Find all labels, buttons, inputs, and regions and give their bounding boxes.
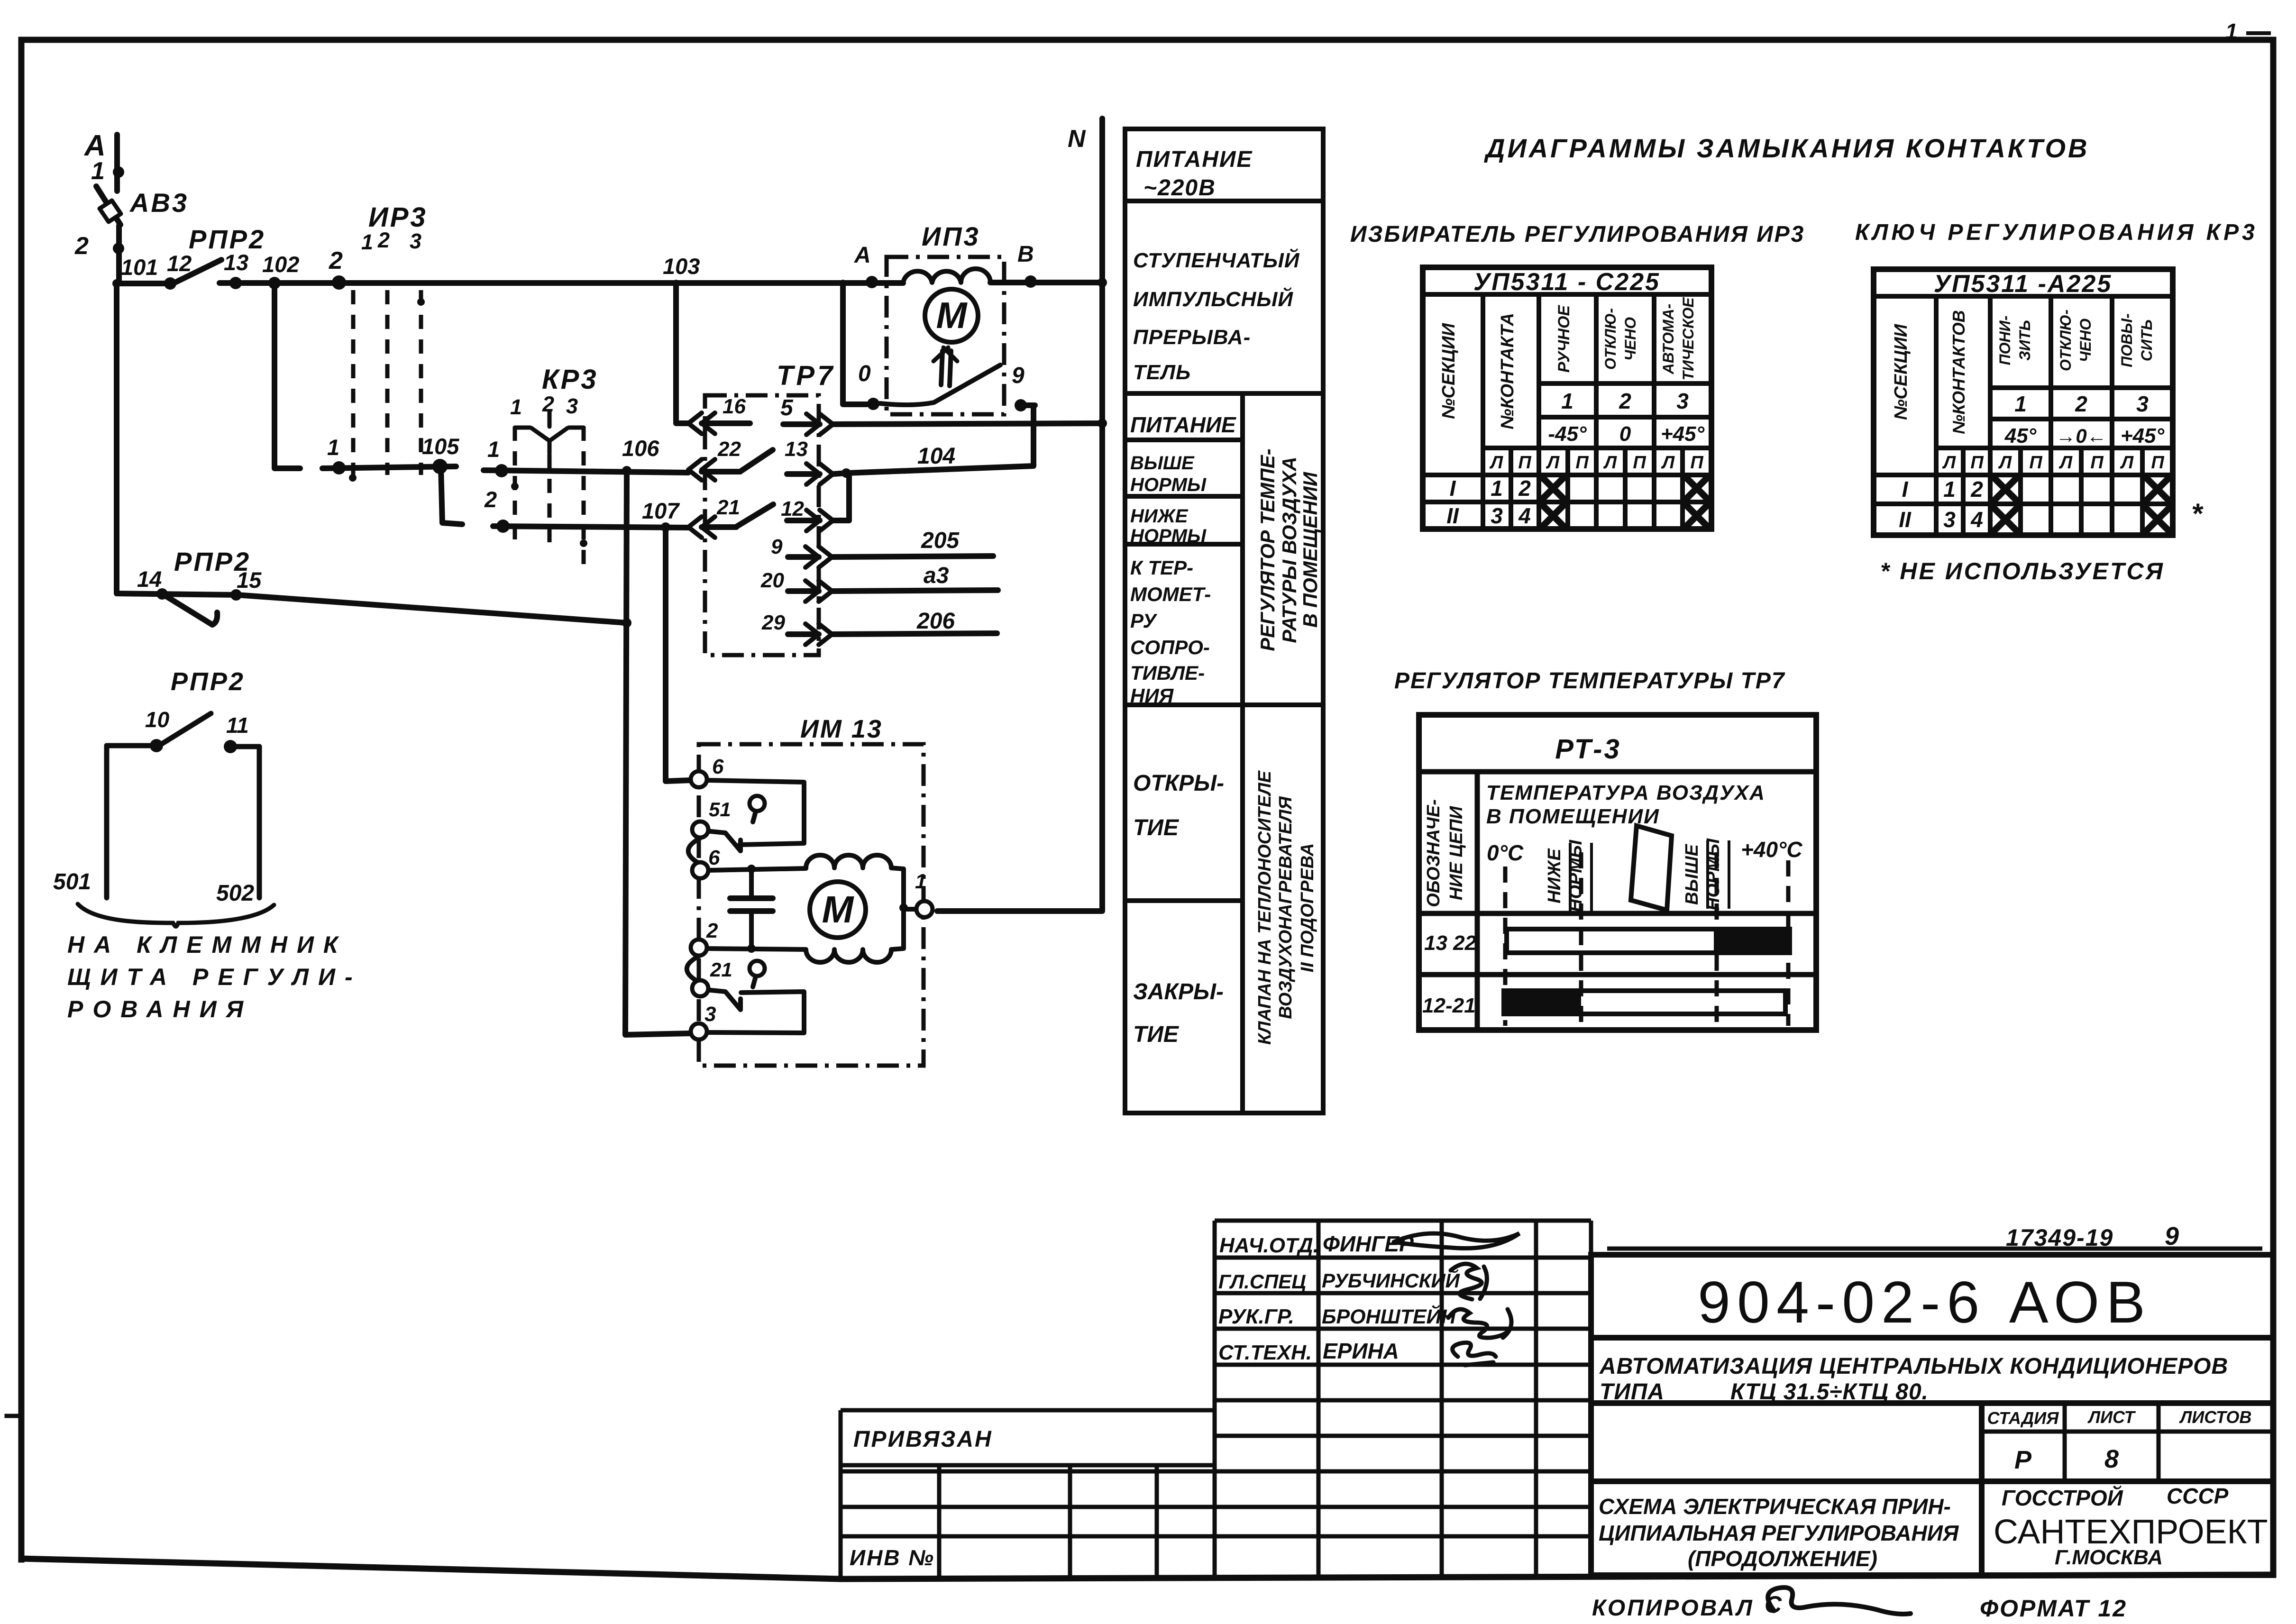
svg-text:1: 1 (1491, 476, 1503, 501)
svg-text:+45°: +45° (1661, 422, 1705, 446)
svg-text:СТУПЕНЧАТЫЙ: СТУПЕНЧАТЫЙ (1133, 248, 1300, 272)
svg-text:1: 1 (915, 870, 926, 893)
svg-text:1: 1 (510, 395, 522, 419)
svg-text:СХЕМА ЭЛЕКТРИЧЕСКАЯ ПРИН-: СХЕМА ЭЛЕКТРИЧЕСКАЯ ПРИН- (1599, 1494, 1951, 1519)
svg-text:НИЕ ЦЕПИ: НИЕ ЦЕПИ (1446, 806, 1466, 900)
svg-text:ОТКЛЮ-: ОТКЛЮ- (2057, 310, 2074, 371)
svg-text:3: 3 (566, 394, 578, 418)
svg-text:51: 51 (709, 798, 731, 821)
svg-text:СССР: СССР (2167, 1484, 2229, 1508)
svg-text:№СЕКЦИИ: №СЕКЦИИ (1891, 324, 1911, 420)
svg-text:ПРЕРЫВА-: ПРЕРЫВА- (1133, 326, 1251, 349)
svg-text:13: 13 (224, 250, 248, 275)
svg-text:Л: Л (1546, 453, 1560, 473)
svg-text:ЧЕНО: ЧЕНО (1622, 317, 1639, 361)
svg-text:2: 2 (74, 232, 89, 260)
svg-text:П: П (1970, 453, 1984, 473)
svg-text:106: 106 (622, 436, 659, 461)
svg-text:Л: Л (2120, 453, 2134, 473)
svg-text:2: 2 (1619, 389, 1631, 413)
svg-text:13 22: 13 22 (1424, 931, 1477, 955)
svg-text:ОТКРЫ-: ОТКРЫ- (1133, 771, 1224, 796)
svg-text:(ПРОДОЛЖЕНИЕ): (ПРОДОЛЖЕНИЕ) (1688, 1546, 1877, 1571)
svg-text:ИП3: ИП3 (922, 221, 980, 251)
svg-text:ТИЧЕСКОЕ: ТИЧЕСКОЕ (1680, 297, 1697, 381)
svg-text:КОПИРОВАЛ: КОПИРОВАЛ (1592, 1596, 1754, 1621)
svg-text:ИНВ №: ИНВ № (850, 1545, 935, 1570)
svg-text:I: I (1902, 477, 1909, 502)
svg-text:ГОССТРОЙ: ГОССТРОЙ (2002, 1486, 2123, 1510)
svg-text:СОПРО-: СОПРО- (1130, 636, 1210, 658)
svg-text:М: М (936, 294, 968, 336)
svg-text:ЦИПИАЛЬНАЯ РЕГУЛИРОВАНИЯ: ЦИПИАЛЬНАЯ РЕГУЛИРОВАНИЯ (1599, 1521, 1959, 1545)
svg-text:ВЫШЕ: ВЫШЕ (1130, 453, 1195, 474)
svg-text:15: 15 (237, 567, 262, 593)
svg-text:3: 3 (704, 1003, 716, 1026)
svg-text:Г.МОСКВА: Г.МОСКВА (2055, 1546, 2163, 1569)
svg-text:П: П (2029, 453, 2042, 473)
svg-text:2: 2 (706, 919, 718, 942)
svg-text:2: 2 (1970, 477, 1983, 502)
svg-text:1: 1 (1561, 389, 1573, 413)
svg-text:СИТЬ: СИТЬ (2138, 319, 2155, 361)
svg-text:6: 6 (708, 846, 720, 869)
svg-text:205: 205 (921, 528, 960, 553)
svg-text:СТАДИЯ: СТАДИЯ (1987, 1408, 2059, 1428)
svg-text:I: I (1450, 476, 1456, 501)
svg-text:ТИПА: ТИПА (1600, 1379, 1665, 1405)
svg-text:П: П (1633, 453, 1646, 473)
svg-text:105: 105 (422, 434, 459, 459)
svg-text:ТИВЛЕ-: ТИВЛЕ- (1130, 662, 1205, 684)
svg-text:16: 16 (723, 395, 746, 418)
svg-text:ПОНИ-: ПОНИ- (1996, 316, 2013, 365)
svg-text:ПРИВЯЗАН: ПРИВЯЗАН (853, 1427, 993, 1452)
svg-text:1: 1 (1943, 477, 1956, 502)
svg-text:П: П (2151, 453, 2164, 473)
svg-text:РТ-3: РТ-3 (1555, 734, 1621, 765)
svg-text:ПИТАНИЕ: ПИТАНИЕ (1136, 147, 1253, 172)
svg-text:РУ: РУ (1130, 610, 1158, 632)
svg-text:ЗИТЬ: ЗИТЬ (2016, 320, 2033, 361)
svg-text:ЩИТА РЕГУЛИ-: ЩИТА РЕГУЛИ- (67, 964, 362, 990)
svg-text:В: В (1017, 242, 1034, 267)
svg-text:В ПОМЕЩЕНИИ: В ПОМЕЩЕНИИ (1486, 805, 1660, 828)
svg-text:НИЖЕ: НИЖЕ (1545, 848, 1564, 903)
svg-text:0: 0 (1619, 422, 1631, 446)
svg-text:2: 2 (484, 487, 497, 512)
svg-text:501: 501 (53, 869, 91, 894)
svg-text:НИЯ: НИЯ (1130, 684, 1174, 707)
svg-text:22: 22 (717, 438, 741, 461)
svg-text:12: 12 (781, 497, 804, 520)
svg-text:9: 9 (771, 535, 783, 558)
svg-text:УП5311 -А225: УП5311 -А225 (1934, 270, 2113, 298)
svg-text:ПИТАНИЕ: ПИТАНИЕ (1130, 412, 1236, 437)
svg-text:ИР3: ИР3 (368, 202, 428, 233)
svg-text:КЛАПАН НА ТЕПЛОНОСИТЕЛЕ: КЛАПАН НА ТЕПЛОНОСИТЕЛЕ (1255, 770, 1275, 1045)
svg-text:904-02-6 АОВ: 904-02-6 АОВ (1698, 1270, 2152, 1335)
svg-text:-45°: -45° (1548, 422, 1587, 446)
svg-text:0°С: 0°С (1487, 840, 1524, 865)
svg-text:21: 21 (716, 496, 740, 519)
svg-text:8: 8 (2104, 1445, 2119, 1473)
svg-text:РУК.ГР.: РУК.ГР. (1218, 1305, 1294, 1328)
svg-text:2: 2 (329, 247, 343, 274)
svg-text:ДИАГРАММЫ ЗАМЫКАНИЯ КОНТАКТОВ: ДИАГРАММЫ ЗАМЫКАНИЯ КОНТАКТОВ (1484, 133, 2089, 163)
svg-text:ЗАКРЫ-: ЗАКРЫ- (1133, 979, 1224, 1004)
svg-text:ЧЕНО: ЧЕНО (2077, 319, 2094, 362)
svg-text:12: 12 (167, 251, 192, 276)
svg-text:БРОНШТЕЙН: БРОНШТЕЙН (1322, 1305, 1456, 1328)
svg-text:107: 107 (642, 498, 680, 523)
svg-text:САНТЕХПРОЕКТ: САНТЕХПРОЕКТ (1994, 1513, 2268, 1551)
svg-text:1: 1 (361, 230, 373, 254)
svg-text:11: 11 (226, 713, 249, 738)
svg-text:Л: Л (1942, 453, 1956, 473)
svg-text:В ПОМЕЩЕНИИ: В ПОМЕЩЕНИИ (1299, 472, 1321, 628)
svg-text:+45°: +45° (2121, 424, 2165, 447)
svg-text:РАТУРЫ ВОЗДУХА: РАТУРЫ ВОЗДУХА (1278, 456, 1300, 643)
svg-text:13: 13 (785, 438, 808, 461)
svg-text:10: 10 (145, 707, 170, 732)
svg-text:П: П (1690, 453, 1703, 473)
svg-text:206: 206 (916, 609, 955, 634)
svg-text:~220В: ~220В (1143, 175, 1216, 201)
svg-text:КЛЮЧ РЕГУЛИРОВАНИЯ КР3: КЛЮЧ РЕГУЛИРОВАНИЯ КР3 (1855, 220, 2258, 245)
svg-text:2: 2 (1518, 476, 1531, 501)
svg-text:НАЧ.ОТД.: НАЧ.ОТД. (1219, 1234, 1319, 1257)
svg-text:ЛИСТ: ЛИСТ (2087, 1407, 2136, 1427)
svg-text:29: 29 (761, 611, 785, 634)
svg-text:К ТЕР-: К ТЕР- (1130, 557, 1193, 579)
svg-text:НОРМЫ: НОРМЫ (1130, 474, 1207, 495)
svg-text:СТ.ТЕХН.: СТ.ТЕХН. (1218, 1341, 1312, 1364)
svg-text:ВЫШЕ: ВЫШЕ (1682, 843, 1702, 905)
svg-text:Л: Л (1661, 453, 1675, 473)
svg-text:ЕРИНА: ЕРИНА (1323, 1339, 1399, 1363)
svg-text:С: С (1765, 1591, 1782, 1618)
svg-text:1: 1 (91, 157, 105, 185)
svg-text:РЕГУЛЯТОР ТЕМПЕРАТУРЫ ТР7: РЕГУЛЯТОР ТЕМПЕРАТУРЫ ТР7 (1394, 668, 1785, 693)
svg-text:ФОРМАТ 12: ФОРМАТ 12 (1980, 1595, 2127, 1622)
svg-text:ТИЕ: ТИЕ (1133, 1022, 1180, 1047)
svg-text:ОБОЗНАЧЕ-: ОБОЗНАЧЕ- (1424, 799, 1444, 907)
svg-text:1: 1 (2225, 19, 2238, 44)
svg-text:ГЛ.СПЕЦ: ГЛ.СПЕЦ (1218, 1270, 1306, 1293)
svg-text:3: 3 (1491, 503, 1503, 528)
svg-text:17349-19: 17349-19 (2006, 1224, 2113, 1251)
svg-text:РУБЧИНСКИЙ: РУБЧИНСКИЙ (1322, 1268, 1460, 1292)
svg-text:II: II (1446, 503, 1459, 528)
svg-text:9: 9 (1012, 363, 1025, 388)
svg-text:0: 0 (858, 361, 871, 386)
svg-text:3: 3 (2136, 392, 2149, 416)
svg-text:НИЖЕ: НИЖЕ (1130, 506, 1189, 527)
svg-text:АВТОМА-: АВТОМА- (1660, 304, 1677, 375)
svg-text:2: 2 (377, 228, 390, 252)
svg-text:№СЕКЦИИ: №СЕКЦИИ (1439, 323, 1459, 419)
svg-text:20: 20 (760, 569, 784, 592)
svg-text:ИМПУЛЬСНЫЙ: ИМПУЛЬСНЫЙ (1133, 287, 1293, 311)
svg-text:ИМ 13: ИМ 13 (800, 715, 883, 743)
svg-text:6: 6 (712, 755, 724, 778)
svg-text:П: П (1575, 453, 1589, 473)
svg-text:ОТКЛЮ-: ОТКЛЮ- (1602, 308, 1619, 370)
svg-text:ВОЗДУХОНАГРЕВАТЕЛЯ: ВОЗДУХОНАГРЕВАТЕЛЯ (1276, 796, 1296, 1019)
svg-text:*: * (2191, 498, 2204, 529)
svg-text:П: П (2090, 453, 2104, 473)
svg-text:РУЧНОЕ: РУЧНОЕ (1555, 305, 1573, 373)
svg-text:а3: а3 (924, 563, 949, 588)
svg-text:ПОВЫ-: ПОВЫ- (2118, 313, 2135, 367)
svg-text:№КОНТАКТА: №КОНТАКТА (1498, 313, 1518, 429)
svg-text:ЛИСТОВ: ЛИСТОВ (2179, 1407, 2252, 1427)
svg-text:Л: Л (1998, 453, 2012, 473)
svg-text:1: 1 (327, 435, 339, 460)
svg-text:* НЕ ИСПОЛЬЗУЕТСЯ: * НЕ ИСПОЛЬЗУЕТСЯ (1880, 558, 2165, 584)
svg-text:+40°С: +40°С (1741, 837, 1802, 862)
svg-text:3: 3 (1676, 389, 1689, 413)
svg-text:А: А (854, 243, 871, 268)
svg-text:45°: 45° (2004, 424, 2037, 447)
svg-text:Л: Л (1489, 453, 1503, 473)
svg-text:РОВАНИЯ: РОВАНИЯ (67, 996, 253, 1022)
svg-text:N: N (1068, 125, 1086, 153)
svg-text:РПР2: РПР2 (171, 667, 245, 696)
svg-text:УП5311 - С225: УП5311 - С225 (1473, 268, 1660, 296)
svg-text:МОМЕТ-: МОМЕТ- (1130, 583, 1211, 605)
svg-text:II: II (1899, 507, 1912, 532)
svg-text:ИЗБИРАТЕЛЬ РЕГУЛИРОВАНИЯ ИР3: ИЗБИРАТЕЛЬ РЕГУЛИРОВАНИЯ ИР3 (1350, 222, 1805, 247)
svg-text:РЕГУЛЯТОР ТЕМПЕ-: РЕГУЛЯТОР ТЕМПЕ- (1256, 448, 1279, 651)
svg-text:П: П (1518, 453, 1531, 473)
svg-text:3: 3 (410, 229, 421, 253)
svg-text:3: 3 (1943, 507, 1956, 532)
svg-text:2: 2 (542, 392, 554, 416)
svg-text:21: 21 (710, 958, 732, 981)
svg-text:ТИЕ: ТИЕ (1133, 815, 1180, 840)
svg-text:104: 104 (917, 444, 955, 469)
svg-text:1: 1 (2014, 392, 2027, 416)
svg-text:103: 103 (663, 254, 700, 279)
svg-text:→0←: →0← (2056, 425, 2106, 447)
svg-text:4: 4 (1518, 503, 1531, 528)
svg-text:М: М (822, 888, 855, 931)
svg-text:12-21: 12-21 (1422, 994, 1476, 1017)
svg-text:II ПОДОГРЕВА: II ПОДОГРЕВА (1298, 843, 1317, 973)
svg-text:АВ3: АВ3 (129, 188, 189, 218)
svg-text:2: 2 (2075, 392, 2087, 416)
svg-text:ТЕЛЬ: ТЕЛЬ (1133, 361, 1191, 384)
svg-text:АВТОМАТИЗАЦИЯ ЦЕНТРАЛЬНЫХ КОНД: АВТОМАТИЗАЦИЯ ЦЕНТРАЛЬНЫХ КОНДИЦИОНЕРОВ (1599, 1354, 2228, 1379)
svg-text:4: 4 (1970, 507, 1983, 532)
svg-text:502: 502 (216, 881, 254, 906)
svg-text:НОРМЫ: НОРМЫ (1130, 526, 1207, 547)
svg-text:Р: Р (2014, 1446, 2032, 1474)
svg-text:9: 9 (2165, 1222, 2179, 1250)
svg-text:1: 1 (487, 437, 500, 462)
svg-text:КР3: КР3 (542, 364, 598, 395)
svg-text:14: 14 (137, 566, 162, 592)
svg-text:101: 101 (121, 255, 158, 280)
svg-text:5: 5 (780, 395, 794, 420)
svg-text:Л: Л (1603, 453, 1617, 473)
svg-text:КТЦ 31.5÷КТЦ 80.: КТЦ 31.5÷КТЦ 80. (1730, 1379, 1929, 1405)
svg-text:№КОНТАКТОВ: №КОНТАКТОВ (1949, 310, 1968, 434)
svg-text:ТР7: ТР7 (777, 360, 835, 391)
svg-text:НА КЛЕММНИК: НА КЛЕММНИК (67, 931, 348, 958)
svg-text:Л: Л (2058, 453, 2073, 473)
svg-text:102: 102 (262, 252, 299, 277)
svg-text:ТЕМПЕРАТУРА ВОЗДУХА: ТЕМПЕРАТУРА ВОЗДУХА (1486, 781, 1765, 804)
